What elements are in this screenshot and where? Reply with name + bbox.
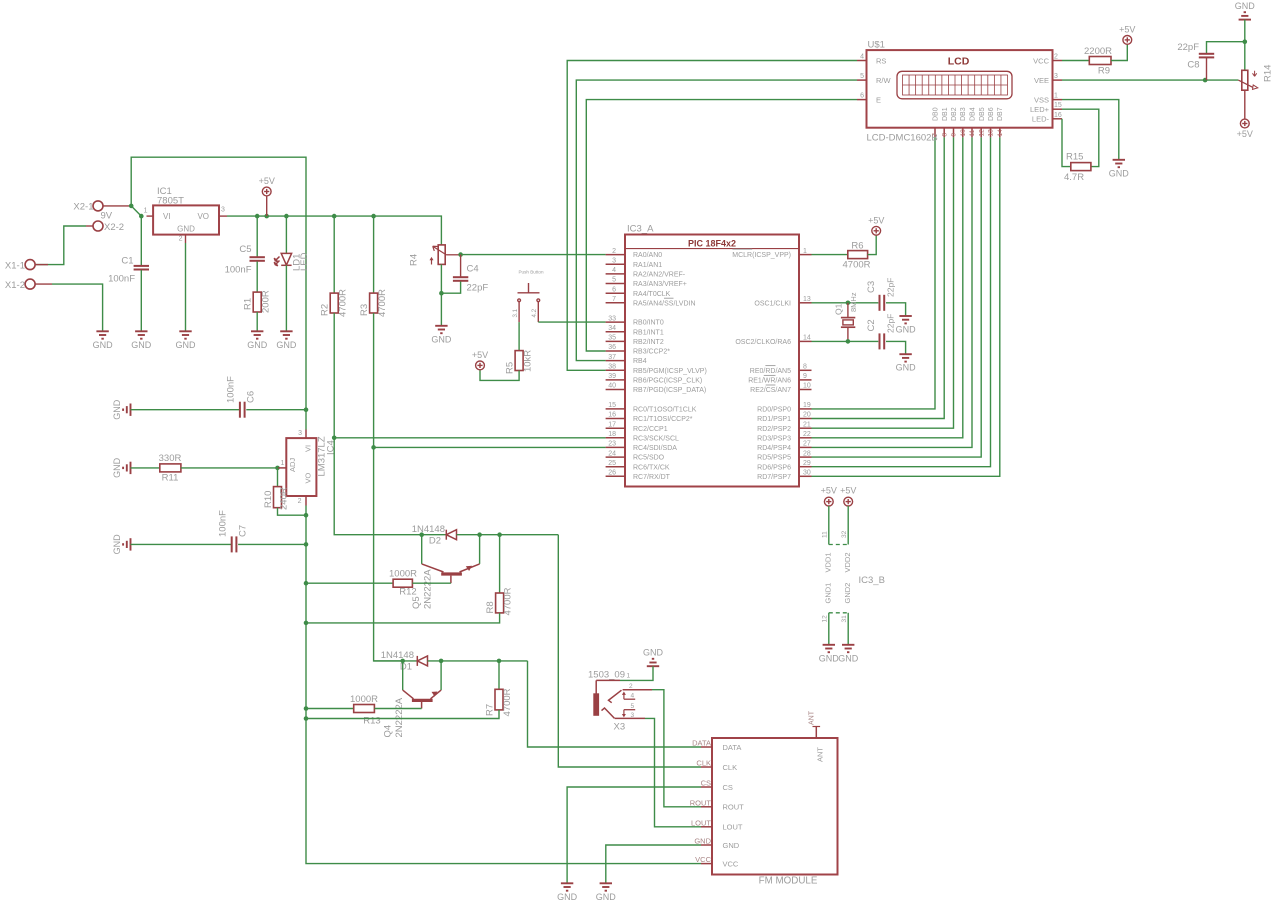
svg-text:GND: GND [643, 648, 664, 658]
FM antenna pin ANT [815, 727, 817, 739]
svg-text:29: 29 [803, 460, 811, 467]
resistor R9 2200R [1062, 60, 1089, 62]
svg-text:4: 4 [631, 693, 635, 700]
svg-text:4700R: 4700R [377, 289, 388, 317]
svg-text:FM MODULE: FM MODULE [759, 876, 818, 887]
wire diagonal X2-1 to node [131, 206, 141, 216]
resistor R3 4700R [373, 216, 375, 293]
diode D1 1N4148 [374, 660, 418, 662]
svg-text:ROUT: ROUT [723, 803, 745, 812]
svg-text:RD1/PSP1: RD1/PSP1 [757, 416, 791, 423]
svg-text:RD7/PSP7: RD7/PSP7 [757, 474, 791, 481]
ground X1-2 [96, 331, 108, 338]
resistor R6 4700R [812, 254, 848, 256]
svg-text:1: 1 [1054, 93, 1058, 100]
svg-text:LED-: LED- [1032, 115, 1050, 124]
ground CS [561, 883, 573, 890]
junction LED branch [284, 214, 289, 219]
+5V supply VDD2 [844, 497, 853, 506]
svg-text:3.1: 3.1 [512, 308, 519, 317]
svg-text:RD4/PSP4: RD4/PSP4 [757, 445, 791, 452]
transistor Q5 2N2222A [421, 535, 423, 564]
svg-text:5: 5 [860, 73, 864, 80]
svg-text:30: 30 [803, 470, 811, 477]
wire DATA from D1 row [528, 661, 702, 747]
svg-text:22pF: 22pF [886, 314, 896, 333]
wire X3 pin2 to FM ROUT [652, 690, 701, 807]
wire RD3/PSP3 to LCD DB3 [812, 137, 963, 438]
resistor R7 4700R [498, 661, 500, 689]
svg-text:4700R: 4700R [502, 587, 513, 615]
resistor R10 240R [277, 468, 279, 487]
+5V supply below R14 [1240, 119, 1249, 128]
IC1 ground pin 2 [185, 235, 187, 243]
svg-text:PIC 18F4x2: PIC 18F4x2 [688, 239, 736, 249]
svg-text:1503_09: 1503_09 [588, 670, 625, 681]
svg-text:ROUT: ROUT [690, 798, 712, 807]
wire LCD R/W to PIC RB4 [576, 80, 857, 361]
junction C7 / VO rail [304, 542, 309, 547]
svg-text:18: 18 [608, 431, 616, 438]
svg-text:3: 3 [1054, 73, 1058, 80]
ground GND2 [842, 645, 854, 652]
svg-text:100nF: 100nF [217, 510, 228, 537]
junction R8 row [304, 621, 309, 626]
svg-text:4.7R: 4.7R [1064, 172, 1084, 183]
svg-text:25: 25 [608, 460, 616, 467]
svg-text:GND: GND [557, 892, 578, 902]
junction +5V symbol [264, 214, 269, 219]
svg-text:R2: R2 [320, 304, 331, 316]
svg-text:26: 26 [608, 470, 616, 477]
svg-text:RC1/T1OSI/CCP2*: RC1/T1OSI/CCP2* [633, 416, 693, 423]
svg-text:2: 2 [612, 248, 616, 255]
wire X1-2 lead [35, 283, 52, 285]
wire X2-1 lead [103, 205, 131, 207]
svg-text:LED: LED [299, 252, 310, 271]
wire FM GND to ground [606, 845, 701, 883]
svg-text:1: 1 [803, 248, 807, 255]
wire 9V rail to LM317 VI [131, 157, 306, 429]
svg-text:C7: C7 [237, 525, 248, 537]
voltage regulator IC4 LM317LZ [286, 438, 316, 496]
ground VSS [1113, 160, 1125, 167]
svg-text:15: 15 [1054, 102, 1062, 109]
svg-text:3: 3 [298, 430, 302, 437]
svg-text:GND: GND [176, 340, 197, 350]
svg-text:VSS: VSS [1034, 95, 1049, 104]
wire R4 bottom to ground [440, 264, 442, 325]
ground LED [280, 331, 292, 338]
wire button to R5 [518, 322, 520, 351]
wire VDD2 [847, 506, 849, 545]
svg-text:RD0/PSP0: RD0/PSP0 [757, 407, 791, 414]
svg-text:2: 2 [298, 498, 302, 505]
svg-text:RB5/PGM(ICSP_VLVP): RB5/PGM(ICSP_VLVP) [633, 368, 707, 375]
LCD right pins [1053, 60, 1063, 62]
wire C4 bottom [441, 282, 460, 294]
svg-text:240R: 240R [279, 487, 290, 510]
svg-text:X3: X3 [614, 722, 626, 733]
diode D2 1N4148 [422, 534, 447, 536]
svg-text:X2-1: X2-1 [73, 202, 93, 213]
svg-text:GND: GND [896, 325, 917, 335]
svg-text:Q1: Q1 [834, 303, 844, 315]
wire R14 to +5V [1244, 90, 1246, 119]
svg-text:RD3/PSP3: RD3/PSP3 [757, 435, 791, 442]
svg-text:R12: R12 [399, 587, 416, 598]
ground C2 [899, 354, 911, 361]
svg-text:RA0/AN0: RA0/AN0 [633, 252, 662, 259]
svg-text:+5V: +5V [821, 486, 837, 496]
wire RD5/PSP5 to LCD DB5 [812, 137, 982, 457]
svg-text:D1: D1 [400, 662, 412, 673]
ground C3 [899, 316, 911, 323]
svg-text:35: 35 [608, 335, 616, 342]
wire X3 pin1 to ground [620, 666, 653, 680]
svg-text:1N4148: 1N4148 [381, 650, 414, 661]
svg-text:22pF: 22pF [467, 283, 489, 294]
ground R4 [435, 326, 447, 333]
svg-text:X1-1: X1-1 [5, 260, 25, 271]
svg-text:2200R: 2200R [1084, 46, 1112, 57]
capacitor C3 22pF [880, 295, 885, 311]
svg-text:33: 33 [608, 315, 616, 322]
ground top right [1239, 12, 1251, 19]
svg-text:GND: GND [896, 363, 917, 373]
wire CS to ground [567, 787, 701, 883]
svg-text:4: 4 [860, 54, 864, 61]
svg-text:Push Button: Push Button [518, 270, 543, 275]
wire RD2/PSP2 to LCD DB2 [812, 137, 954, 428]
svg-text:GND: GND [247, 340, 268, 350]
svg-text:GND: GND [819, 654, 840, 664]
wire X2-2 lead [86, 225, 93, 227]
PIC left pins [606, 254, 625, 256]
ground X3 pin1 [647, 659, 659, 666]
svg-text:330R: 330R [159, 453, 182, 464]
svg-text:R/W: R/W [876, 76, 892, 85]
svg-text:GND: GND [131, 340, 152, 350]
junction crystal top [846, 301, 851, 306]
svg-text:+5V: +5V [1119, 24, 1135, 34]
svg-text:C5: C5 [239, 244, 251, 255]
svg-text:2: 2 [179, 236, 183, 243]
svg-text:X1-2: X1-2 [5, 280, 25, 291]
svg-text:39: 39 [608, 373, 616, 380]
svg-text:24: 24 [608, 450, 616, 457]
svg-text:12: 12 [822, 615, 829, 623]
junction RC4/SDI [371, 445, 376, 450]
wire VO rail down to FM VCC [306, 506, 701, 864]
svg-text:RA4/T0CLK: RA4/T0CLK [633, 291, 671, 298]
svg-text:GND: GND [723, 841, 740, 850]
svg-text:CLK: CLK [696, 759, 711, 768]
svg-text:13: 13 [803, 296, 811, 303]
wire R4 wiper to PIC RA0 pin 2 [461, 254, 606, 256]
svg-text:200R: 200R [261, 290, 272, 313]
wire R4 wiper tap [447, 254, 461, 256]
resistor R13 1000R [306, 708, 354, 710]
svg-text:16: 16 [608, 412, 616, 419]
+5V supply VDD1 [824, 497, 833, 506]
svg-text:9: 9 [803, 373, 807, 380]
svg-text:32: 32 [841, 530, 848, 538]
+5V supply near IC1 [266, 196, 268, 216]
junction R12 row [304, 581, 309, 586]
svg-text:RB3/CCP2*: RB3/CCP2* [633, 349, 670, 356]
wire X2-2 to X1-1 [36, 226, 86, 265]
junction D1 cathode / Q4 collector [400, 659, 405, 664]
+5V supply at R6 [872, 226, 881, 235]
wire R13 to Q4 base [374, 708, 421, 710]
wire GND1 [828, 613, 830, 645]
svg-text:19: 19 [803, 402, 811, 409]
wire to PIC RC3/SCK pin 18 [334, 437, 605, 439]
svg-text:RB0/INT0: RB0/INT0 [633, 320, 664, 327]
svg-text:36: 36 [608, 344, 616, 351]
svg-text:VI: VI [304, 445, 313, 452]
svg-text:4: 4 [612, 267, 616, 274]
wire C8 bottom to VEE [1206, 58, 1208, 80]
svg-text:RC6/TX/CK: RC6/TX/CK [633, 464, 670, 471]
junction D2 anode / Q5 emitter [477, 532, 482, 537]
svg-text:RE0/RD/AN5: RE0/RD/AN5 [750, 368, 791, 375]
svg-text:1: 1 [144, 208, 148, 215]
junction X2-1 branch [129, 204, 134, 209]
svg-text:VCC: VCC [723, 859, 739, 868]
junction crystal bottom [846, 339, 851, 344]
wire D1 row to DATA [428, 660, 528, 662]
resistor R8 4700R [499, 535, 501, 593]
ground GND1 [823, 645, 835, 652]
+5V supply at R9 [1123, 36, 1132, 45]
capacitor C2 22pF [880, 333, 885, 349]
svg-text:22pF: 22pF [1177, 42, 1199, 53]
LCD display glyph [897, 71, 1012, 99]
svg-text:7: 7 [932, 133, 939, 137]
svg-text:20: 20 [803, 412, 811, 419]
wire R8 bottom to VO rail [306, 613, 500, 623]
svg-text:4700R: 4700R [843, 260, 871, 271]
svg-text:RD6/PSP6: RD6/PSP6 [757, 464, 791, 471]
LCD left pins RS R/W E [857, 60, 867, 62]
svg-text:5: 5 [612, 277, 616, 284]
svg-text:8MHz: 8MHz [849, 292, 858, 312]
svg-text:DB2: DB2 [951, 107, 958, 121]
svg-text:+5V: +5V [259, 176, 275, 186]
wire RD0/PSP0 to LCD DB0 [812, 137, 936, 409]
svg-text:IC4: IC4 [326, 440, 337, 455]
svg-text:4700R: 4700R [502, 688, 513, 716]
svg-text:D2: D2 [429, 536, 441, 547]
svg-text:CS: CS [723, 783, 733, 792]
svg-text:1000R: 1000R [350, 694, 378, 705]
svg-text:5: 5 [631, 703, 635, 710]
svg-text:X2-2: X2-2 [104, 222, 124, 233]
svg-text:C3: C3 [866, 281, 877, 293]
wire GND2 [847, 613, 849, 645]
svg-text:ANT: ANT [809, 710, 816, 725]
svg-text:RB7/PGD(ICSP_DATA): RB7/PGD(ICSP_DATA) [633, 387, 706, 394]
ground IC1 [179, 331, 191, 338]
wire LED- to R15 [1062, 119, 1071, 167]
svg-text:DB0: DB0 [933, 107, 940, 121]
svg-text:RA3/AN3/VREF+: RA3/AN3/VREF+ [633, 281, 687, 288]
svg-text:C6: C6 [246, 391, 257, 403]
svg-text:GND: GND [596, 892, 617, 902]
svg-text:100nF: 100nF [108, 274, 135, 285]
svg-text:1: 1 [627, 673, 631, 680]
svg-text:DATA: DATA [692, 739, 711, 748]
connector pad X1-1 [25, 260, 35, 270]
junction C4 branch [458, 252, 463, 257]
junction R7 row [304, 716, 309, 721]
svg-text:DB6: DB6 [988, 107, 995, 121]
svg-text:DB7: DB7 [997, 107, 1004, 121]
transistor Q4 2N2222A [402, 661, 404, 690]
svg-text:+5V: +5V [1237, 129, 1253, 139]
svg-text:E: E [876, 95, 881, 104]
svg-text:Q4: Q4 [383, 725, 394, 738]
svg-text:1N4148: 1N4148 [412, 524, 445, 535]
junction R13 row [304, 706, 309, 711]
svg-text:4700R: 4700R [338, 289, 349, 317]
svg-text:RE2/CS/AN7: RE2/CS/AN7 [750, 387, 791, 394]
svg-text:9: 9 [951, 133, 958, 137]
junction D1 anode / Q4 emitter [439, 659, 444, 664]
svg-text:GND: GND [431, 334, 452, 344]
capacitor C5 100nF [256, 216, 258, 257]
wire R11 to LM317 ADJ [181, 467, 278, 469]
svg-text:VI: VI [163, 212, 171, 221]
wire RD4/PSP4 to LCD DB4 [812, 137, 973, 447]
svg-text:RA2/AN2/VREF-: RA2/AN2/VREF- [633, 272, 686, 279]
svg-text:GND: GND [694, 837, 711, 846]
svg-text:27: 27 [803, 441, 811, 448]
wire button to PIC RB0 pin 33 [538, 321, 605, 323]
svg-text:R4: R4 [409, 254, 420, 266]
svg-text:VDD1: VDD1 [824, 552, 833, 572]
svg-text:LOUT: LOUT [723, 823, 743, 832]
svg-text:R15: R15 [1066, 152, 1083, 163]
wire LCD E to PIC RB3 [586, 100, 857, 351]
svg-text:RB6/PGC(ICSP_CLK): RB6/PGC(ICSP_CLK) [633, 378, 702, 385]
svg-text:2: 2 [1054, 54, 1058, 61]
X3 pin 3 sleeve contact [615, 717, 645, 719]
wire IC1 GND [185, 243, 187, 331]
svg-text:2N2222A: 2N2222A [394, 697, 405, 737]
svg-text:LCD-DMC1602B: LCD-DMC1602B [867, 133, 938, 144]
svg-text:38: 38 [608, 364, 616, 371]
svg-text:GND: GND [93, 340, 114, 350]
svg-text:3: 3 [221, 207, 225, 214]
svg-text:R13: R13 [363, 715, 380, 726]
wire R9 to +5V [1111, 45, 1127, 61]
wire VSS to ground [1062, 100, 1119, 160]
svg-text:U$1: U$1 [868, 40, 885, 51]
junction ADJ / R10 [275, 466, 280, 471]
svg-text:OSC2/CLKO/RA6: OSC2/CLKO/RA6 [735, 339, 791, 346]
svg-text:R14: R14 [1263, 65, 1274, 82]
svg-text:R5: R5 [504, 362, 515, 374]
svg-text:DB3: DB3 [960, 107, 967, 121]
ground R11 [123, 462, 130, 474]
wire CLK from D2 row [558, 535, 701, 767]
PIC right pins [799, 254, 812, 256]
svg-text:R1: R1 [243, 298, 254, 310]
svg-text:14: 14 [997, 129, 1004, 137]
wire to PIC RC4/SDI pin 23 [374, 446, 606, 448]
svg-text:28: 28 [803, 450, 811, 457]
svg-text:VO: VO [304, 472, 313, 483]
svg-text:VCC: VCC [1033, 56, 1049, 65]
junction R10 / VO rail [304, 513, 309, 518]
wire X3 pin3 to FM LOUT [645, 718, 701, 826]
svg-text:GND2: GND2 [843, 583, 852, 604]
svg-text:RE1/WR/AN6: RE1/WR/AN6 [748, 378, 791, 385]
wire LCD RS to PIC RB5 [567, 61, 857, 371]
svg-text:100nF: 100nF [226, 376, 237, 403]
svg-text:37: 37 [608, 354, 616, 361]
junction R8 top [497, 532, 502, 537]
wire D2 row to CLK [457, 534, 559, 536]
svg-text:40: 40 [608, 383, 616, 390]
svg-text:LOUT: LOUT [691, 818, 711, 827]
svg-text:7: 7 [612, 296, 616, 303]
svg-text:6: 6 [860, 93, 864, 100]
potentiometer R14 [1244, 42, 1246, 71]
wire X1-1 lead [35, 264, 48, 266]
svg-text:100nF: 100nF [225, 264, 252, 275]
svg-text:VCC: VCC [695, 855, 711, 864]
svg-text:GND: GND [112, 457, 122, 478]
svg-text:DATA: DATA [723, 743, 742, 752]
wire R7 bottom to VO rail [306, 710, 499, 719]
svg-text:6: 6 [612, 286, 616, 293]
svg-text:R11: R11 [162, 473, 179, 484]
svg-text:1: 1 [281, 460, 285, 467]
svg-text:+5V: +5V [868, 215, 884, 225]
capacitor C8 22pF [1207, 42, 1245, 54]
svg-text:10kR: 10kR [522, 350, 533, 372]
wire VEE to R14 wiper [1062, 79, 1238, 81]
svg-text:OSC1/CLKI: OSC1/CLKI [754, 300, 791, 307]
trimmer R4 [438, 245, 445, 265]
capacitor C4 22pF [460, 255, 462, 278]
wire R10 bottom to VO rail [278, 508, 307, 516]
svg-text:RC5/SDO: RC5/SDO [633, 455, 665, 462]
svg-text:31: 31 [841, 615, 848, 623]
junction C8 top / R14 [1243, 39, 1248, 44]
svg-text:21: 21 [803, 421, 811, 428]
svg-text:13: 13 [988, 129, 995, 137]
svg-text:MCLR(ICSP_VPP): MCLR(ICSP_VPP) [732, 252, 791, 259]
junction RC3/SCK [332, 436, 337, 441]
svg-text:RC4/SDI/SDA: RC4/SDI/SDA [633, 445, 677, 452]
svg-text:RC3/SCK/SCL: RC3/SCK/SCL [633, 435, 679, 442]
FM module [712, 738, 838, 875]
svg-text:ADJ: ADJ [288, 458, 297, 472]
wire X1-2 to ground [52, 284, 103, 331]
wire R2 to D2 row [334, 313, 422, 535]
+5V supply symbol [262, 187, 271, 196]
svg-text:RC2/CCP1: RC2/CCP1 [633, 426, 668, 433]
svg-text:GND: GND [112, 399, 122, 420]
junction C5 branch [255, 214, 260, 219]
svg-text:11: 11 [822, 531, 829, 538]
connector pad X2-1 [93, 201, 103, 211]
